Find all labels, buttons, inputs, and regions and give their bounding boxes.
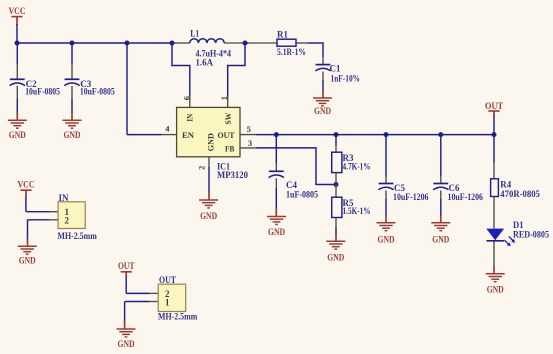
svg-text:10uF-1206: 10uF-1206 [393, 192, 429, 202]
svg-text:5: 5 [247, 124, 251, 134]
svg-text:6: 6 [182, 96, 191, 100]
svg-text:IN: IN [59, 193, 69, 203]
svg-text:FB: FB [225, 143, 234, 153]
svg-text:R1: R1 [277, 30, 288, 40]
svg-text:GND: GND [206, 133, 216, 151]
svg-text:GND: GND [487, 285, 504, 295]
svg-text:5.1R-1%: 5.1R-1% [277, 47, 306, 57]
svg-text:GND: GND [118, 339, 135, 349]
svg-text:EN: EN [182, 130, 195, 140]
svg-text:1: 1 [165, 297, 170, 307]
svg-text:GND: GND [327, 252, 344, 262]
svg-text:GND: GND [432, 234, 449, 244]
svg-text:SW: SW [223, 113, 233, 125]
svg-text:GND: GND [200, 211, 217, 221]
svg-text:OUT: OUT [218, 130, 235, 140]
svg-text:IN: IN [184, 113, 194, 121]
svg-text:1nF-10%: 1nF-10% [331, 73, 361, 83]
svg-text:1.5K-1%: 1.5K-1% [343, 206, 371, 216]
svg-text:GND: GND [378, 234, 395, 244]
svg-text:OUT: OUT [159, 275, 176, 285]
svg-text:2: 2 [65, 215, 70, 225]
svg-text:VCC: VCC [9, 6, 26, 16]
svg-text:1.6A: 1.6A [196, 58, 214, 68]
svg-text:GND: GND [268, 227, 285, 237]
svg-text:GND: GND [64, 130, 81, 140]
svg-text:2: 2 [198, 166, 207, 170]
svg-text:10uF-0805: 10uF-0805 [80, 87, 115, 97]
svg-text:RED-0805: RED-0805 [513, 230, 549, 240]
svg-text:C1: C1 [330, 64, 341, 74]
svg-text:470R-0805: 470R-0805 [500, 189, 540, 199]
svg-text:4.7K-1%: 4.7K-1% [343, 162, 371, 172]
svg-text:L1: L1 [190, 29, 199, 39]
svg-text:MP3120: MP3120 [217, 170, 248, 180]
svg-text:1: 1 [220, 96, 229, 100]
svg-text:MH-2.5mm: MH-2.5mm [158, 312, 198, 322]
svg-text:VCC: VCC [18, 179, 35, 189]
svg-text:1uF-0805: 1uF-0805 [286, 189, 318, 199]
svg-text:D1: D1 [513, 220, 524, 230]
svg-text:10uF-0805: 10uF-0805 [25, 87, 60, 97]
svg-text:GND: GND [314, 106, 331, 116]
svg-text:GND: GND [19, 256, 36, 266]
svg-text:10uF-1206: 10uF-1206 [448, 192, 484, 202]
svg-text:GND: GND [9, 130, 26, 140]
svg-text:3: 3 [248, 138, 252, 148]
svg-text:MH-2.5mm: MH-2.5mm [58, 231, 98, 241]
svg-text:OUT: OUT [118, 261, 135, 271]
svg-text:OUT: OUT [485, 101, 503, 111]
